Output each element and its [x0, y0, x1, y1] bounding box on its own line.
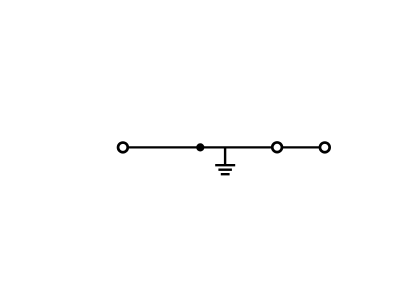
wire ground stem: [224, 147, 226, 165]
wire: [123, 146, 325, 148]
terminal T2: [272, 142, 282, 152]
terminal T3: [320, 143, 330, 153]
ground: [215, 165, 235, 174]
terminal T1: [118, 143, 128, 153]
node junction dot: [196, 143, 204, 151]
